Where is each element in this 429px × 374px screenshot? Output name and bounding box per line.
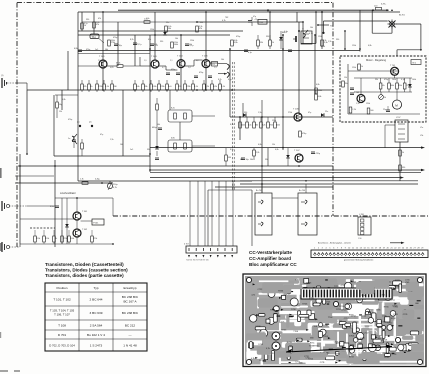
svg-text:120k: 120k xyxy=(152,86,156,88)
svg-text:47k: 47k xyxy=(98,18,101,20)
resistor Rm1 xyxy=(239,122,242,128)
capacitor C223 xyxy=(241,157,245,159)
svg-text:16: 16 xyxy=(371,247,373,249)
svg-text:6: 6 xyxy=(333,247,334,249)
wire bus y187 xyxy=(215,186,333,188)
svg-text:1,9: 1,9 xyxy=(144,60,147,62)
svg-text:100k: 100k xyxy=(392,79,396,81)
wire v x297b xyxy=(296,12,298,22)
capacitor C104 xyxy=(185,43,189,45)
wire v x118 xyxy=(117,22,119,66)
svg-text:330: 330 xyxy=(147,149,150,151)
resistor R105 xyxy=(165,26,168,32)
svg-text:10k: 10k xyxy=(120,144,123,146)
svg-text:22n: 22n xyxy=(166,22,169,24)
svg-text:12: 12 xyxy=(356,247,358,249)
svg-text:22n: 22n xyxy=(178,86,181,88)
svg-text:3: 3 xyxy=(322,247,323,249)
svg-text:2: 2 xyxy=(318,247,319,249)
resistor Re4 xyxy=(103,84,106,90)
wire v x262b xyxy=(261,100,263,117)
ruler pin numbers xyxy=(314,247,423,249)
svg-text:CC-Amplifier board: CC-Amplifier board xyxy=(249,256,291,261)
svg-text:1 S 2473: 1 S 2473 xyxy=(90,344,103,348)
capacitor C105 pair xyxy=(166,72,170,74)
chassis dash-dot line lower horizontal xyxy=(113,215,429,217)
boxed resistor pair lower xyxy=(168,140,192,152)
extra wire v x258 xyxy=(257,35,259,40)
label box right of T105 xyxy=(212,62,218,67)
transistor glyph left xyxy=(72,136,74,141)
extra res mid xyxy=(257,40,260,46)
wire left mid h xyxy=(55,94,78,96)
svg-text:120k: 120k xyxy=(190,40,194,42)
transistor T104 xyxy=(177,60,185,68)
transistor T101 xyxy=(99,60,107,68)
wire T105 out xyxy=(210,62,218,64)
svg-text:2,2k: 2,2k xyxy=(256,152,260,154)
svg-text:0,1µ: 0,1µ xyxy=(248,52,253,54)
svg-text:10µ: 10µ xyxy=(59,104,63,106)
svg-text:120k: 120k xyxy=(366,103,370,105)
svg-text:Ersatztyp: Ersatztyp xyxy=(124,286,137,290)
extra tiny value labels xyxy=(84,16,326,69)
resistor Rmrow4 xyxy=(403,83,406,89)
resistor Re16 xyxy=(219,84,222,90)
svg-text:17: 17 xyxy=(375,247,377,249)
svg-text:3,9n: 3,9n xyxy=(50,206,54,208)
svg-text:6,8k: 6,8k xyxy=(234,42,238,44)
svg-text:8,2k: 8,2k xyxy=(130,39,134,41)
label box TB2 xyxy=(258,20,267,25)
svg-text:2,1: 2,1 xyxy=(170,60,173,62)
resistor Re5 xyxy=(111,84,114,90)
svg-text:BC 212: BC 212 xyxy=(125,324,136,328)
svg-text:270k: 270k xyxy=(288,112,292,114)
svg-text:10k: 10k xyxy=(382,85,385,87)
extra wire v x270b xyxy=(269,35,271,40)
svg-text:10µ: 10µ xyxy=(119,45,123,47)
svg-text:4,7k: 4,7k xyxy=(222,20,226,22)
wire y183 xyxy=(15,182,113,184)
svg-text:2,5: 2,5 xyxy=(98,60,101,62)
wire v x230 xyxy=(229,49,231,117)
svg-text:6,2: 6,2 xyxy=(196,60,199,62)
resistor Re9 xyxy=(158,84,161,90)
wire sockets link xyxy=(272,197,298,199)
svg-text:13: 13 xyxy=(360,247,362,249)
wire bus y184 xyxy=(240,183,418,185)
svg-text:22: 22 xyxy=(394,247,396,249)
svg-text:19: 19 xyxy=(383,247,385,249)
resistor Rm5 xyxy=(267,122,270,128)
motor box inner wire top xyxy=(348,70,399,72)
svg-text:120k: 120k xyxy=(272,120,276,122)
svg-text:Anschlüsse - Bindungsplan - Lö: Anschlüsse - Bindungsplan - Lötseite xyxy=(318,242,352,245)
wire rail y10 right xyxy=(118,9,389,11)
svg-text:29: 29 xyxy=(421,247,423,249)
svg-text:0,1µ: 0,1µ xyxy=(228,79,233,81)
svg-text:4,7k: 4,7k xyxy=(251,295,255,297)
resistor Rmrow2 xyxy=(388,83,391,89)
svg-text:0,45µ: 0,45µ xyxy=(95,179,101,181)
resistor Rm701 xyxy=(358,64,361,70)
motor box inner left xyxy=(347,64,349,114)
resistor R701 lamp xyxy=(376,7,382,10)
svg-text:BC 167 A: BC 167 A xyxy=(123,300,137,304)
transistor T103 xyxy=(151,60,159,68)
svg-text:25: 25 xyxy=(406,247,408,249)
svg-text:10k: 10k xyxy=(175,38,178,40)
svg-text:1k: 1k xyxy=(361,66,363,68)
wire y176 left xyxy=(15,175,54,177)
wire bus y90 xyxy=(27,89,333,91)
small connector block right xyxy=(358,217,371,235)
svg-text:680k: 680k xyxy=(116,63,120,65)
capacitor C106 pair xyxy=(194,75,198,77)
wire v x62 xyxy=(61,90,63,110)
wire mid v x170 xyxy=(169,90,171,110)
svg-text:—: — xyxy=(128,333,132,337)
connector pin arrows xyxy=(188,255,190,258)
resistor R102 xyxy=(93,22,96,28)
resistor Rm703 xyxy=(349,107,352,113)
svg-text:BA127: BA127 xyxy=(282,31,287,34)
capacitor C103 xyxy=(150,43,154,45)
osc box top xyxy=(55,197,113,199)
PCB layout figure CC amplifier board xyxy=(243,274,426,367)
wire v x240 xyxy=(239,117,241,140)
svg-text:T 103: T 103 xyxy=(151,56,157,58)
diode D via xyxy=(279,37,283,40)
svg-text:1k: 1k xyxy=(272,42,274,44)
resistor Rm2 xyxy=(246,122,249,128)
svg-text:8,2k: 8,2k xyxy=(205,86,209,88)
svg-text:8,2k: 8,2k xyxy=(171,108,175,110)
svg-text:Transistoren, Dioden (Cassette: Transistoren, Dioden (Cassettenteil) xyxy=(45,262,124,267)
wire v x299 xyxy=(298,22,300,113)
svg-text:8,2k: 8,2k xyxy=(262,125,265,127)
svg-text:21: 21 xyxy=(390,247,392,249)
svg-text:330: 330 xyxy=(160,41,163,43)
svg-text:15k: 15k xyxy=(344,77,347,79)
wire bus y117 xyxy=(230,116,333,118)
resistor Rm6 xyxy=(274,122,277,128)
wire main box left edge xyxy=(77,12,79,181)
svg-text:56k: 56k xyxy=(157,124,160,126)
wire to P101 xyxy=(81,220,92,222)
svg-text:6,8k: 6,8k xyxy=(74,48,78,50)
arrow output y170 xyxy=(421,169,425,171)
svg-text:4,7µ: 4,7µ xyxy=(138,44,143,46)
svg-text:47k: 47k xyxy=(96,24,99,26)
transistor T701 xyxy=(391,67,399,75)
svg-text:1 S0: 1 S0 xyxy=(358,238,362,240)
resistor Re10 xyxy=(166,84,169,90)
svg-text:6,8k: 6,8k xyxy=(318,96,322,98)
osc verticals xyxy=(61,198,63,244)
svg-text:8: 8 xyxy=(341,247,342,249)
arrow output L xyxy=(421,146,425,148)
resistor Rmrow3 xyxy=(396,83,399,89)
transistor T702 xyxy=(357,95,365,103)
wire T101 base xyxy=(78,65,99,67)
svg-text:TB2: TB2 xyxy=(225,17,228,19)
dashed wire y228 xyxy=(30,227,55,229)
svg-text:Löschoszillator: Löschoszillator xyxy=(60,192,76,195)
svg-text:10k: 10k xyxy=(168,28,171,30)
svg-text:8,2k: 8,2k xyxy=(218,79,222,81)
wire left y166 xyxy=(18,165,333,167)
wire bus y31 xyxy=(78,30,243,32)
connector strip mid xyxy=(186,246,237,253)
svg-text:11: 11 xyxy=(352,247,354,249)
wire v x68 xyxy=(67,51,69,90)
resistor R110 horizontal xyxy=(117,65,123,68)
svg-text:330: 330 xyxy=(228,157,231,159)
svg-text:26: 26 xyxy=(410,247,412,249)
svg-text:47µ: 47µ xyxy=(253,16,256,18)
resistor Rm704 xyxy=(367,108,370,114)
wire v x315 xyxy=(314,35,316,94)
svg-text:T 106, T 107: T 106, T 107 xyxy=(54,313,70,317)
svg-text:gezeichnete Stellung Schaltle: gezeichnete Stellung Schaltleiste xyxy=(344,259,374,262)
wire v x155 xyxy=(154,12,156,60)
svg-text:1,5k: 1,5k xyxy=(105,86,109,88)
svg-text:22µ: 22µ xyxy=(383,109,386,111)
svg-text:1,4: 1,4 xyxy=(188,67,191,69)
resistor Re6 xyxy=(134,84,137,90)
svg-text:L 708: L 708 xyxy=(359,214,364,216)
svg-text:1,5k: 1,5k xyxy=(356,103,360,105)
capacitor C301 xyxy=(55,205,59,207)
wire v x206 xyxy=(205,12,207,90)
stub with dot xyxy=(318,24,329,26)
wire v x262 xyxy=(261,117,263,193)
resistor R730 xyxy=(399,150,402,156)
wire v x268 low xyxy=(267,148,269,166)
capacitor Cm701 xyxy=(350,87,354,89)
wire lamp loop left xyxy=(391,27,393,33)
svg-text:4: 4 xyxy=(326,247,327,249)
svg-text:Typ: Typ xyxy=(94,286,99,290)
svg-text:56k: 56k xyxy=(105,49,108,51)
svg-text:330: 330 xyxy=(402,167,405,169)
wire verticals to connector xyxy=(189,181,191,246)
svg-text:Transistors, Diodes (cassette: Transistors, Diodes (cassette section) xyxy=(45,268,128,273)
motor box wires xyxy=(354,77,412,79)
svg-text:470µ: 470µ xyxy=(316,153,321,155)
svg-text:1,5k: 1,5k xyxy=(328,41,332,43)
svg-text:2,2k: 2,2k xyxy=(352,109,356,111)
component stack x157 xyxy=(156,104,159,110)
svg-text:1,5k: 1,5k xyxy=(221,86,225,88)
wire box bottom y181 xyxy=(78,180,252,182)
svg-text:10k: 10k xyxy=(221,59,224,61)
lamp LP701 xyxy=(388,20,397,29)
svg-text:33k: 33k xyxy=(375,79,378,81)
svg-text:10k: 10k xyxy=(136,86,139,88)
wire v x270 xyxy=(269,12,271,40)
svg-text:120k: 120k xyxy=(36,238,40,240)
svg-text:4,7k: 4,7k xyxy=(251,358,255,360)
resistor R101 xyxy=(81,23,84,29)
svg-text:15k: 15k xyxy=(272,144,275,146)
svg-text:L7a: L7a xyxy=(420,127,424,129)
wire v x283 xyxy=(282,35,284,150)
svg-text:470µ: 470µ xyxy=(68,119,73,121)
svg-text:0,7: 0,7 xyxy=(162,67,165,69)
svg-text:M 1: M 1 xyxy=(413,62,417,64)
arrow output y177 xyxy=(400,176,404,178)
resistor R_left mid xyxy=(56,102,59,108)
diode D201 xyxy=(243,113,246,117)
capacitor C470u xyxy=(158,127,162,129)
svg-text:560: 560 xyxy=(370,110,373,112)
component box 303 xyxy=(301,31,312,44)
capacitor C210 xyxy=(248,20,252,22)
scan artifact 3 xyxy=(0,332,1,338)
wire v x243 xyxy=(242,103,244,117)
svg-text:Position: Position xyxy=(56,286,67,290)
svg-text:330: 330 xyxy=(86,19,89,21)
svg-text:BC 238 B/C: BC 238 B/C xyxy=(122,311,139,315)
wire v x54 xyxy=(53,95,55,156)
scan artifact 1 xyxy=(0,168,2,178)
resistor Re8 xyxy=(150,84,153,90)
transistor T302 xyxy=(73,229,81,237)
resistor R315 xyxy=(315,88,318,94)
diode D203 xyxy=(286,155,290,158)
potentiometer P102 xyxy=(107,183,112,188)
svg-text:0,1µ: 0,1µ xyxy=(84,23,88,25)
svg-text:270k: 270k xyxy=(93,238,97,240)
svg-text:120k: 120k xyxy=(276,125,280,127)
wire T104 base xyxy=(159,65,166,67)
svg-text:6,3V+: 6,3V+ xyxy=(381,4,387,6)
svg-text:Bu 704: Bu 704 xyxy=(299,190,305,192)
svg-text:6,8k: 6,8k xyxy=(62,99,66,101)
svg-text:TA1: TA1 xyxy=(92,36,97,39)
resistor R223 xyxy=(253,150,256,156)
svg-text:3,3k: 3,3k xyxy=(199,26,202,28)
wire T104-T105 xyxy=(185,65,194,67)
svg-text:270k: 270k xyxy=(186,86,190,88)
svg-text:Bu 703: Bu 703 xyxy=(256,190,262,192)
resistor R320 xyxy=(321,40,324,46)
wire v x181 xyxy=(180,35,182,90)
wire main box top edge xyxy=(78,11,400,13)
box around verticals xyxy=(207,190,209,246)
svg-text:47k: 47k xyxy=(199,28,202,30)
wire bus y180 xyxy=(240,180,418,182)
resistor Re14 xyxy=(203,84,206,90)
DIN socket 1 xyxy=(255,193,272,235)
svg-text:T4b: T4b xyxy=(330,26,334,28)
resistor below glyph xyxy=(81,143,84,149)
resistor Re7 xyxy=(142,84,145,90)
wire v x103 xyxy=(102,12,104,90)
svg-text:(1): (1) xyxy=(77,122,80,124)
capacitor at T107 xyxy=(311,151,315,153)
scattered component value labels xyxy=(59,18,416,161)
svg-text:Bu 102 1 V 4: Bu 102 1 V 4 xyxy=(87,333,105,337)
wire between pairs xyxy=(179,122,181,140)
extra caps on y49 xyxy=(244,49,248,51)
svg-text:20: 20 xyxy=(387,247,389,249)
resistor R103 xyxy=(108,40,111,46)
svg-text:10k: 10k xyxy=(310,27,313,29)
svg-text:24: 24 xyxy=(402,247,404,249)
svg-text:33k: 33k xyxy=(144,86,147,88)
resistor Rm702 xyxy=(342,81,345,87)
wire T103 link xyxy=(140,65,151,67)
transistor T106 xyxy=(294,113,302,121)
svg-text:270k: 270k xyxy=(160,86,164,88)
osc wire y219 xyxy=(20,218,75,220)
boxed resistor pair upper xyxy=(168,110,192,122)
svg-text:15k: 15k xyxy=(345,83,348,85)
transistor hook T210 xyxy=(303,33,305,38)
svg-text:56k: 56k xyxy=(250,159,253,161)
svg-text:1n5: 1n5 xyxy=(168,86,171,88)
svg-text:T 108: T 108 xyxy=(58,324,66,328)
connector plug left mid xyxy=(2,201,10,211)
wire bus y170 xyxy=(150,169,421,171)
wire v x400 right edge xyxy=(399,142,401,181)
svg-text:6,8k: 6,8k xyxy=(275,149,279,151)
svg-text:470µ: 470µ xyxy=(236,36,241,38)
connector plug left bottom xyxy=(2,242,10,252)
resistor Re15 xyxy=(211,84,214,90)
svg-text:270k: 270k xyxy=(321,46,325,48)
svg-text:3,3k: 3,3k xyxy=(323,40,326,42)
diode D101 xyxy=(163,32,167,35)
svg-text:100k: 100k xyxy=(390,85,394,87)
svg-text:270k: 270k xyxy=(269,125,273,127)
wire v x20 xyxy=(19,154,21,244)
resistor R731 xyxy=(399,165,402,171)
svg-text:7: 7 xyxy=(337,247,338,249)
svg-text:470µ: 470µ xyxy=(113,37,118,39)
svg-text:+: + xyxy=(137,43,138,45)
svg-text:15: 15 xyxy=(367,247,369,249)
svg-text:4,7k: 4,7k xyxy=(309,33,313,35)
svg-text:T 101: T 101 xyxy=(99,56,105,58)
svg-text:2 BC 644: 2 BC 644 xyxy=(90,298,103,302)
transistor T105 xyxy=(202,60,210,68)
ruler pin marks xyxy=(314,253,425,257)
svg-text:28: 28 xyxy=(417,247,419,249)
wire y22 rail xyxy=(82,21,197,23)
node cap left bus xyxy=(78,49,82,51)
resistor Rm3 xyxy=(253,122,256,128)
svg-text:BC 238 B/C: BC 238 B/C xyxy=(122,295,139,299)
svg-text:3 BC 639: 3 BC 639 xyxy=(90,311,103,315)
svg-text:470µ: 470µ xyxy=(302,133,307,135)
chassis dash-dot border left xyxy=(16,3,18,247)
wire v x322 xyxy=(321,12,323,49)
wire v x360 lamp xyxy=(359,10,361,51)
svg-text:1 N 41 48: 1 N 41 48 xyxy=(123,344,137,348)
svg-text:0,65: 0,65 xyxy=(110,67,114,69)
osc bottom rail xyxy=(20,243,113,245)
svg-text:1,7k: 1,7k xyxy=(80,179,84,181)
svg-text:100k: 100k xyxy=(412,79,416,81)
resistor R104 horizontal xyxy=(144,21,150,24)
svg-text:330: 330 xyxy=(336,39,339,41)
wire rail y21 right segment xyxy=(324,20,388,22)
